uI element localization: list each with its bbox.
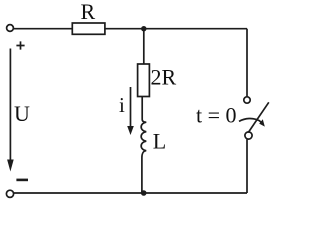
svg-text:t = 0: t = 0 <box>196 103 237 128</box>
svg-text:i: i <box>119 93 125 117</box>
svg-text:U: U <box>14 101 30 126</box>
svg-text:R: R <box>81 0 96 24</box>
svg-text:2R: 2R <box>151 65 177 90</box>
svg-text:L: L <box>153 129 166 154</box>
